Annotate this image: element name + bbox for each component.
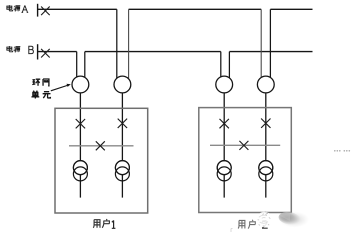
transformer T3: [217, 161, 231, 175]
ring main unit circle 3: [216, 76, 233, 93]
arrow from label to RMU1: [51, 85, 68, 91]
wire: RMU3 left feeder: [220, 52, 222, 80]
digit 1: [112, 220, 116, 228]
letter B: [28, 46, 33, 53]
switch x at source A: [41, 7, 50, 16]
watermark smudge: [0, 0, 1, 1]
wire: RMU1 output drop: [79, 85, 81, 168]
wire: RMU4 left feeder: [260, 9, 262, 80]
source A terminal bar: [37, 4, 39, 17]
ring main unit circle 4: [257, 76, 274, 93]
wire: RMU4 right feeder: [269, 9, 271, 80]
switch x at source B: [41, 49, 50, 58]
wire: RMU2 right feeder: [128, 9, 130, 80]
transformer T2: [115, 161, 129, 175]
label 电源A: [7, 5, 20, 11]
wire: RMU2 output drop: [121, 85, 123, 168]
wire: bus A segment 1: [38, 8, 117, 10]
watermark stamp: [257, 211, 273, 227]
wire: bus B segment 1: [38, 51, 77, 53]
wire: RMU4 output drop: [265, 85, 267, 168]
source B terminal bar: [37, 44, 39, 59]
stray mark left of user2 label: [231, 229, 233, 233]
transformer T4 outlet stub: [265, 174, 267, 198]
label 环网单元: [31, 79, 50, 98]
wire: bus B segment 2: [85, 51, 221, 53]
bus tie switch x user2: [239, 141, 248, 150]
ring main unit circle 2: [114, 76, 131, 93]
switch x on user1 right feeder: [118, 119, 127, 128]
bus tie switch x user1: [96, 141, 105, 150]
user 2 box: [199, 108, 291, 213]
wire: RMU3 output drop: [223, 85, 225, 168]
letter A: [22, 5, 29, 12]
wire: bus A segment 2: [129, 8, 262, 10]
ring main unit circle 1: [72, 76, 89, 93]
switch x on user1 left feeder: [76, 119, 85, 128]
transformer T2 outlet stub: [121, 174, 123, 198]
wire: RMU1 left feeder: [76, 52, 78, 80]
user2 internal bus: [210, 144, 280, 146]
transformer T1 outlet stub: [79, 174, 81, 198]
label 电源B: [7, 46, 20, 52]
label 用户1: [93, 219, 109, 228]
wire: bus A segment 3: [270, 8, 312, 10]
digit 2: [262, 221, 268, 229]
switch x on user2 right feeder: [261, 119, 270, 128]
wire: RMU1 right feeder: [84, 52, 86, 80]
wire: RMU2 left feeder: [116, 9, 118, 80]
ellipsis dots: [334, 150, 350, 152]
switch x on user2 left feeder: [220, 119, 229, 128]
transformer T1: [73, 161, 87, 175]
user1 internal bus: [69, 145, 134, 147]
user 1 box: [55, 108, 148, 213]
wire: bus B segment 3: [229, 51, 312, 53]
transformer T4: [259, 161, 273, 175]
label 用户2: [238, 220, 255, 229]
wire: RMU3 right feeder: [228, 52, 230, 80]
transformer T3 outlet stub: [223, 174, 225, 198]
